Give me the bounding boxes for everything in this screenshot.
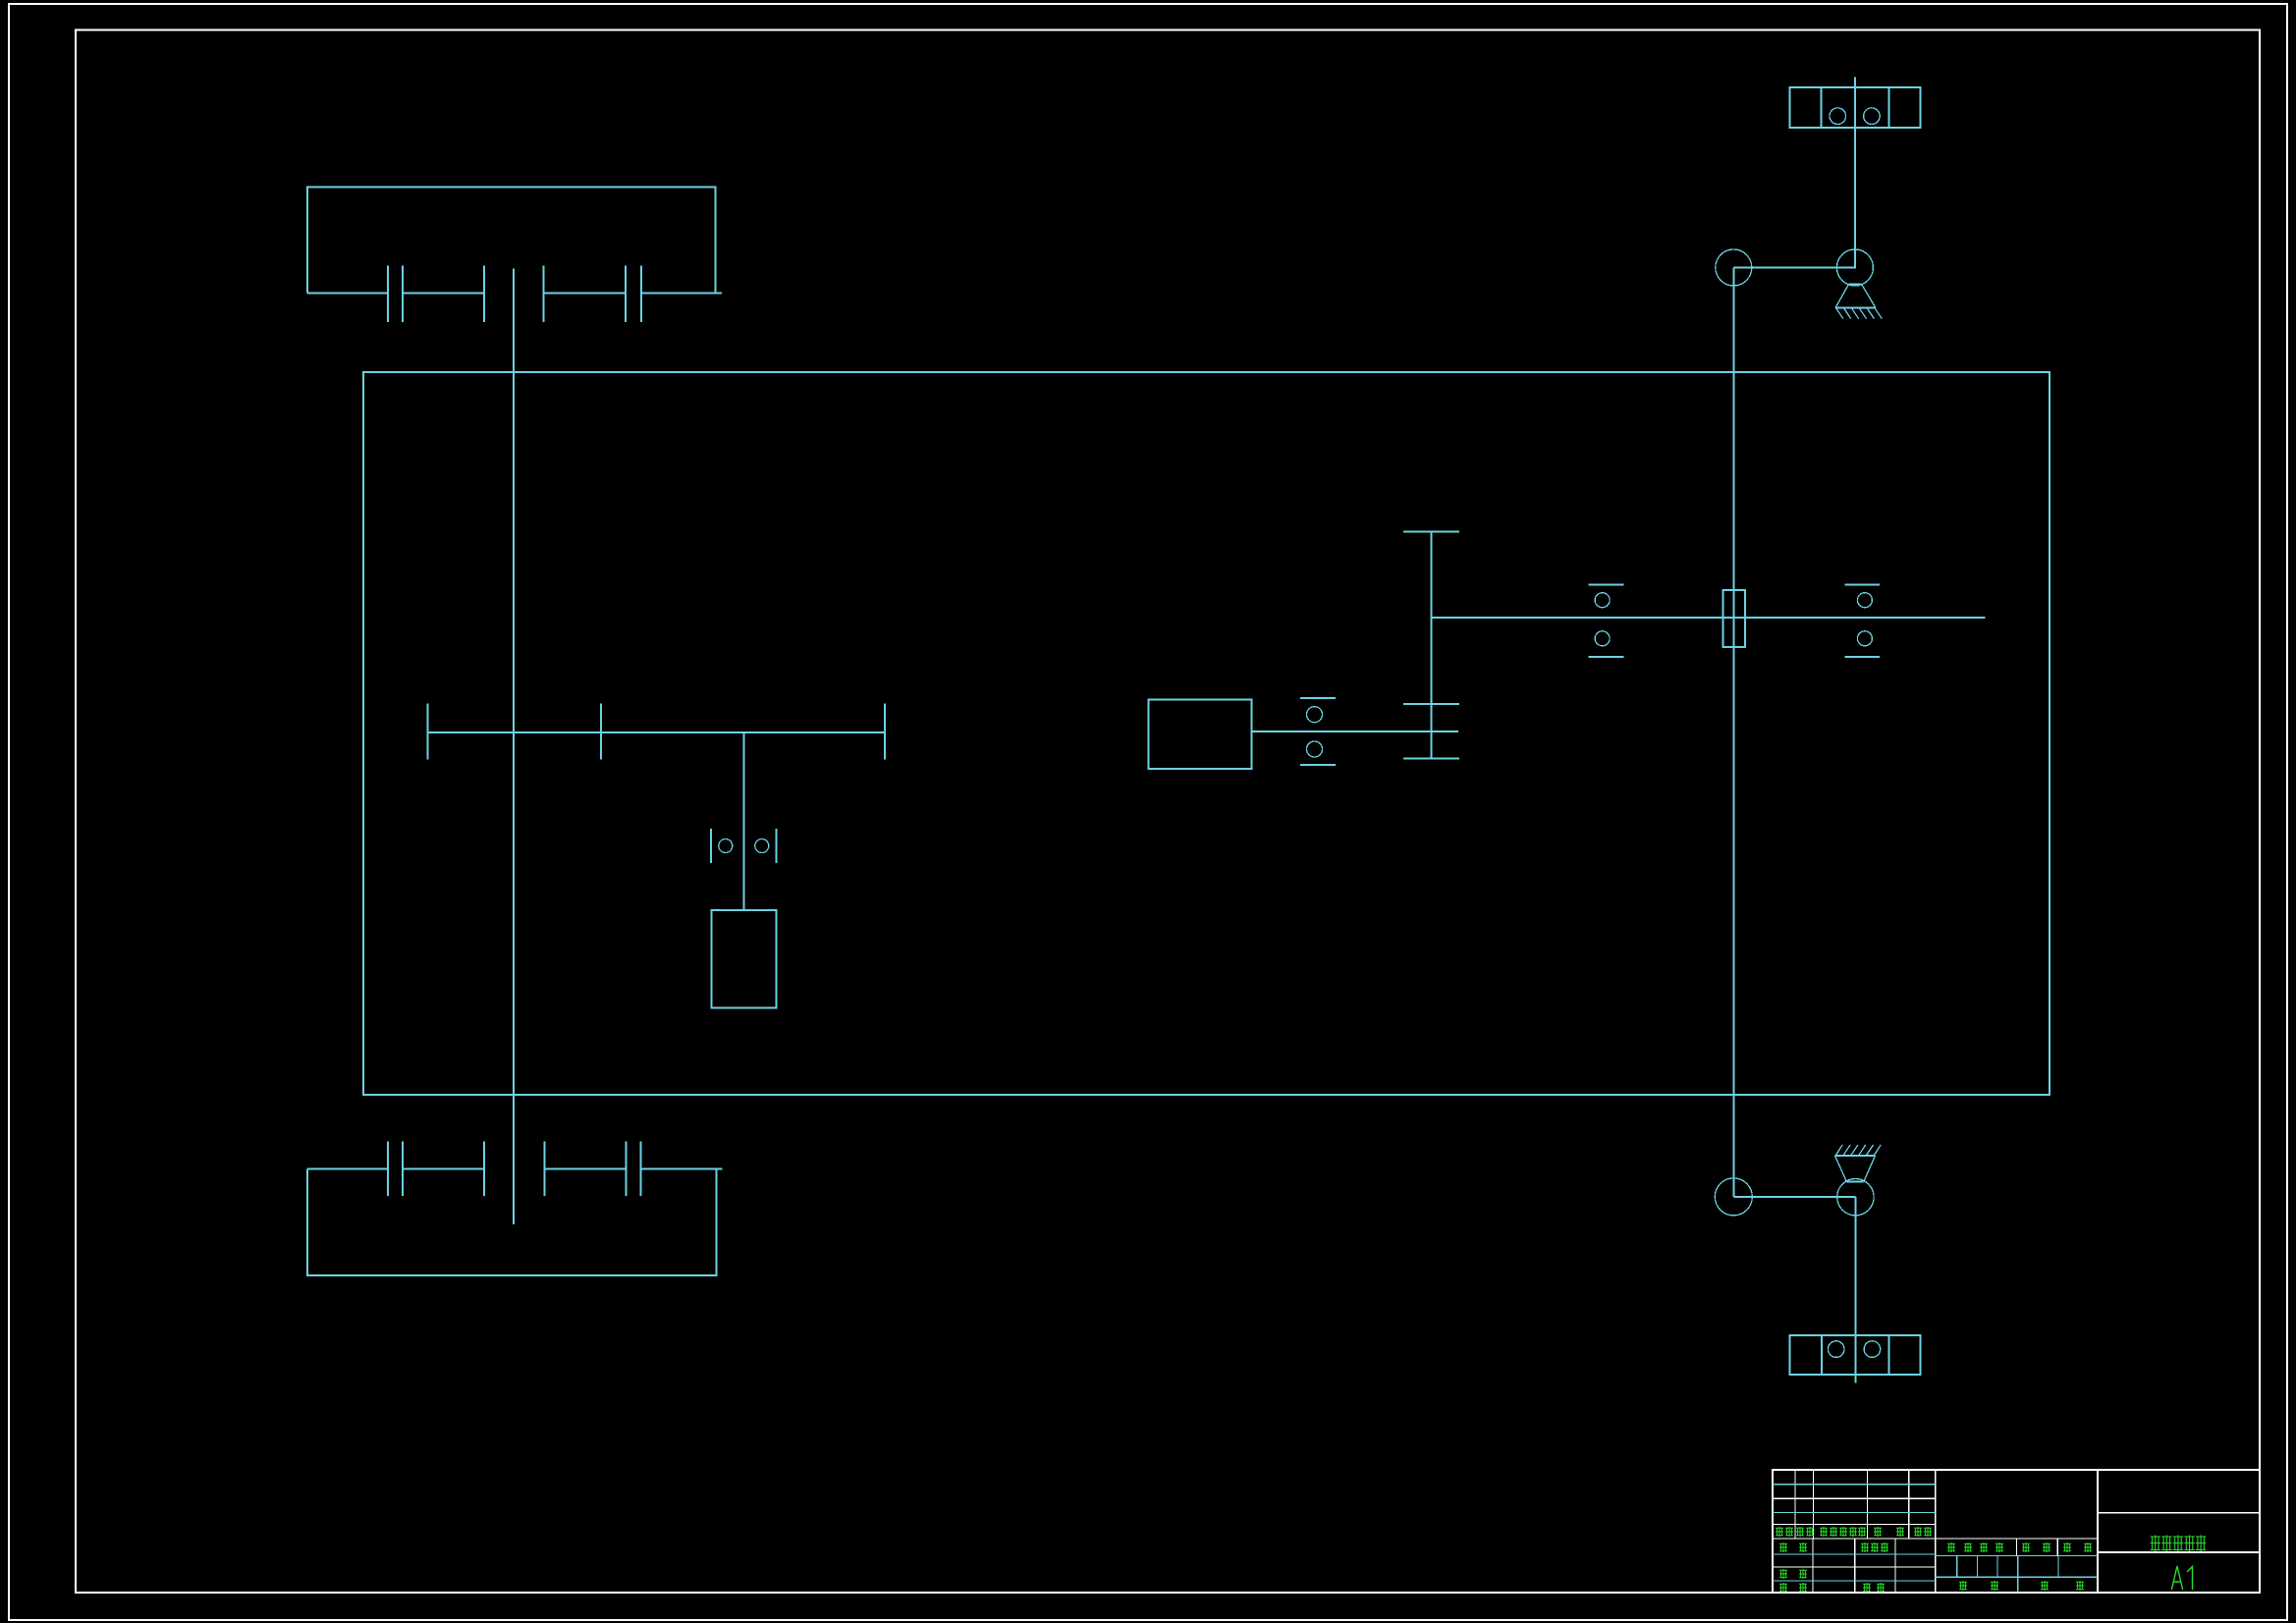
reduction gear pair	[1430, 532, 1432, 759]
top wheel unit shaft	[1854, 78, 1856, 269]
bottom bell crank link	[1733, 1196, 1855, 1198]
steering column bearing rollers	[719, 839, 733, 853]
signature area rows	[1773, 1554, 1936, 1581]
output bearing rollers left	[1595, 593, 1610, 608]
bottom fixed support	[1835, 1156, 1876, 1182]
stamp area grid	[1936, 1539, 2098, 1593]
drive motor M2	[1149, 700, 1252, 770]
front axle coupling bars	[388, 266, 641, 322]
machine frame	[363, 372, 2050, 1095]
drive shaft bearing	[1300, 698, 1336, 765]
top crank joint left	[1716, 249, 1752, 286]
steering motor M1	[711, 910, 776, 1008]
审核 row glyphs	[1779, 1569, 1807, 1579]
工艺 / 日期 row glyphs	[1779, 1583, 1885, 1593]
drawing title 传动原理图 glyphs	[2151, 1536, 2207, 1552]
signature area columns	[1813, 1539, 1895, 1593]
bevel gearbox	[1723, 590, 1746, 647]
output shaft	[1432, 617, 1986, 619]
bottom crank joint right	[1837, 1179, 1874, 1216]
图样标记 数量 比例 glyphs	[1947, 1542, 2092, 1552]
output shaft bearing left	[1588, 584, 1623, 657]
rear axle shaft	[307, 1167, 722, 1169]
top support legs	[1835, 285, 1876, 308]
output bearing rollers right	[1857, 593, 1872, 608]
rear axle coupling bars	[388, 1142, 640, 1197]
共页 第页 glyphs	[1959, 1581, 2084, 1591]
drive shaft bearing rollers	[1307, 707, 1323, 723]
top crank joint right	[1836, 249, 1873, 286]
title block right section rows	[2098, 1513, 2260, 1552]
top bell crank link	[1733, 267, 1855, 269]
revision table rows	[1773, 1485, 2098, 1539]
right lift shaft (vertical)	[1732, 268, 1734, 1197]
bottom support legs	[1835, 1156, 1876, 1182]
output shaft bearing right	[1845, 584, 1881, 657]
steering shaft ticks	[428, 703, 885, 759]
revision table columns	[1795, 1470, 1909, 1539]
设计 row glyphs	[1779, 1542, 1888, 1552]
steering cross shaft	[428, 731, 885, 733]
steering column bearing	[711, 829, 777, 863]
title block outline	[1773, 1470, 2260, 1593]
top wheel unit box	[1789, 87, 1920, 128]
bottom wheel unit shaft	[1854, 1197, 1856, 1382]
bottom wheel unit box	[1789, 1335, 1920, 1375]
front axle shaft	[307, 293, 722, 295]
drive motor shaft	[1252, 730, 1458, 732]
top support hatching	[1836, 308, 1883, 319]
steering column link	[743, 732, 745, 910]
left jackshaft (vertical)	[513, 268, 515, 1224]
label row glyphs (标记 处数 更改文件号 签字 日期)	[1776, 1527, 1932, 1537]
front axle housing	[307, 188, 716, 294]
rear axle housing	[307, 1168, 717, 1275]
top wheel unit rollers	[1830, 108, 1846, 125]
top fixed support	[1835, 285, 1876, 308]
sheet size A1	[2172, 1566, 2193, 1590]
bottom crank joint left	[1715, 1178, 1752, 1216]
bottom wheel unit rollers	[1828, 1341, 1844, 1358]
bottom support hatching	[1835, 1145, 1881, 1156]
